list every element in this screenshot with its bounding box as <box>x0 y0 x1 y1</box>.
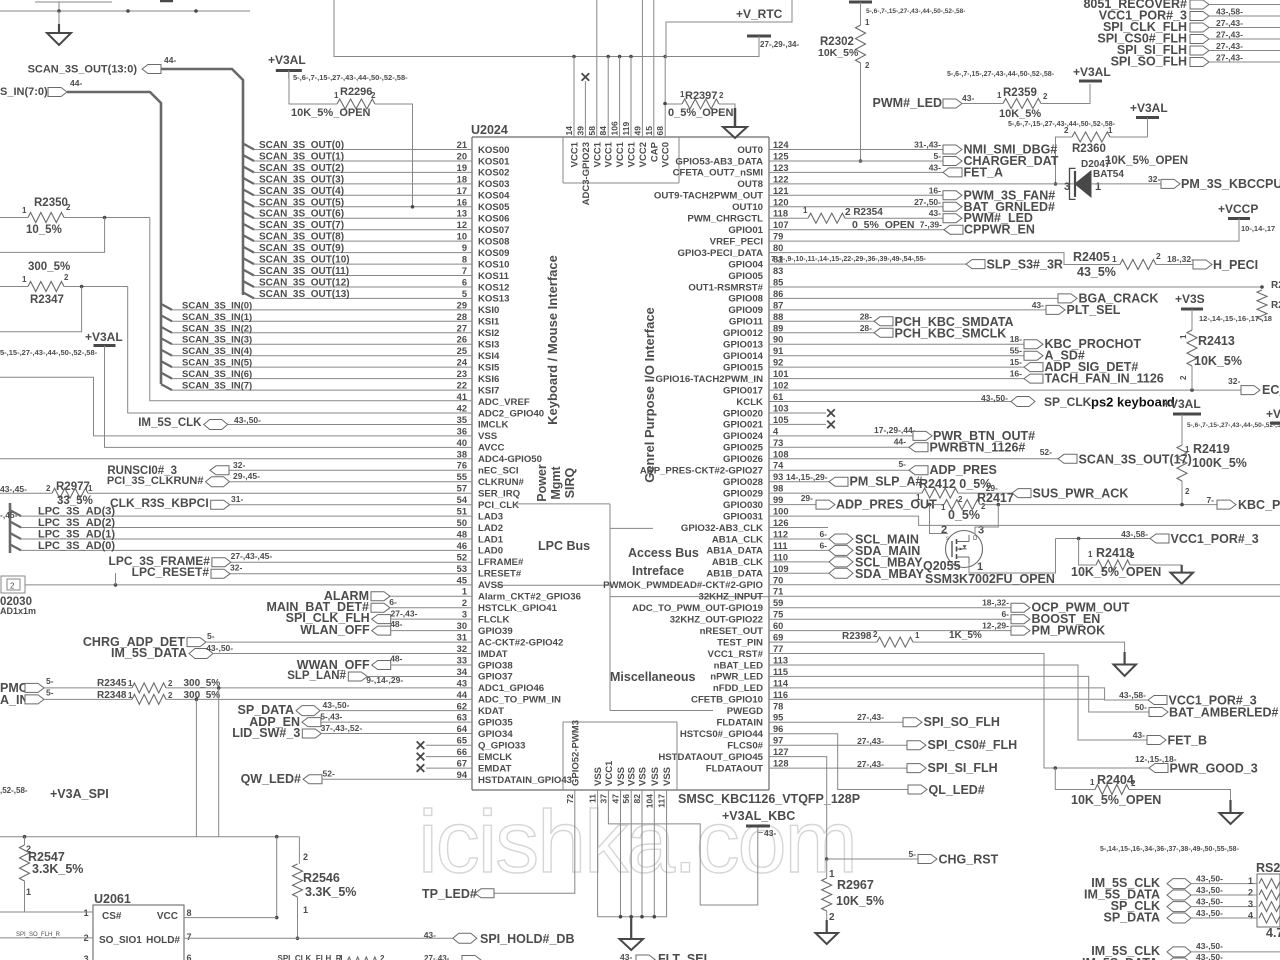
U2024 top pin 84 VCC1 <box>598 126 615 168</box>
svg-text:2: 2 <box>66 203 71 212</box>
wire Q2055 source <box>969 539 1056 574</box>
svg-text:SCAN_3S_OUT(6): SCAN_3S_OUT(6) <box>259 209 344 220</box>
svg-text:10K_5%: 10K_5% <box>818 47 859 59</box>
svg-text:29: 29 <box>457 300 467 310</box>
wire SCAN_3S_OUT(10) <box>243 255 472 266</box>
svg-text:KDAT: KDAT <box>478 706 504 717</box>
svg-text:4.7: 4.7 <box>1266 926 1280 940</box>
wire SCAN_3S_IN(5) <box>161 358 472 369</box>
U2024 left pin 31 AC-CKT#2-GPIO42 <box>457 633 564 649</box>
svg-text:VCC1: VCC1 <box>604 760 615 786</box>
power symbol +V3AL (R2296) <box>268 53 306 79</box>
U2024 section divider (PWEGD) <box>610 710 713 712</box>
net CHG_RST connector <box>827 849 999 867</box>
wire R2398 to ground <box>913 642 1125 655</box>
svg-text:15: 15 <box>644 126 654 136</box>
net SP_CLK to RS2 <box>1111 897 1280 914</box>
svg-text:LAD0: LAD0 <box>478 546 503 557</box>
wire R2350 branch <box>0 218 105 253</box>
svg-text:GPIO013: GPIO013 <box>723 340 763 351</box>
svg-text:SCAN_3S_OUT(13:0): SCAN_3S_OUT(13:0) <box>28 64 138 76</box>
svg-text:122: 122 <box>773 174 789 184</box>
net SDA_MBAY connector <box>769 567 925 581</box>
net CLK_R3S_KBPCI connector <box>110 494 472 510</box>
U2024 right pin 74 ADP_PRES-CKT#2-GPIO27 <box>640 461 784 477</box>
junction dots VCC rail <box>572 55 667 59</box>
wire R2296 left <box>289 79 337 105</box>
svg-text:AD1x1m: AD1x1m <box>0 606 36 616</box>
page refs +V3AL R2302 <box>866 8 965 15</box>
svg-text:KOS02: KOS02 <box>478 168 509 179</box>
net PM_SLP_A# connector <box>769 472 922 489</box>
svg-text:SCAN_3S_IN(2): SCAN_3S_IN(2) <box>182 323 252 334</box>
svg-text:Miscellaneous: Miscellaneous <box>610 670 695 684</box>
svg-text:114: 114 <box>773 678 789 688</box>
svg-text:5-,15-,27-,43-,44-,50-,52-,58-: 5-,15-,27-,43-,44-,50-,52-,58- <box>0 348 98 357</box>
U2024 left pin 64 GPIO34 <box>457 724 514 740</box>
svg-text:FET_B: FET_B <box>1168 734 1208 748</box>
svg-text:3: 3 <box>1248 899 1253 909</box>
U2024 right pin 71 32KHZ_INPUT <box>698 587 783 603</box>
svg-text:33: 33 <box>457 656 467 666</box>
svg-text:11: 11 <box>588 794 598 803</box>
svg-text:3: 3 <box>978 525 984 537</box>
svg-text:GPIO37: GPIO37 <box>478 672 513 683</box>
svg-text:43-: 43- <box>620 952 632 960</box>
wire HSTCS0 to QL_LED# <box>769 734 908 790</box>
ground symbol R2967 <box>816 920 839 944</box>
resistor R2350 <box>0 197 71 236</box>
svg-text:5-,6-,7-,15-,27-,43-,44-,50-,5: 5-,6-,7-,15-,27-,43-,44-,50-,52-,58- <box>1008 121 1116 128</box>
svg-text:KOS04: KOS04 <box>478 191 510 202</box>
svg-text:27-,43-: 27-,43- <box>1216 18 1243 28</box>
svg-text:SDA_MBAY: SDA_MBAY <box>855 567 925 581</box>
diode D2047 BAT54 <box>1064 159 1124 199</box>
svg-text:106: 106 <box>610 121 620 135</box>
resistor R2547 <box>20 837 84 912</box>
U2024 top pin 119 VCC1 <box>621 122 638 168</box>
svg-text:BAT_AMBERLED#: BAT_AMBERLED# <box>1169 706 1279 720</box>
svg-text:IM_5S_CLK: IM_5S_CLK <box>138 417 202 429</box>
svg-text:0_5%_OPEN: 0_5%_OPEN <box>668 107 733 119</box>
svg-text:27-,43-: 27-,43- <box>857 712 884 722</box>
wire GPIO52-PWM3 to TP_LED# <box>494 790 575 893</box>
svg-text:12-,14-,15-,16-,17-,18: 12-,14-,15-,16-,17-,18 <box>1199 314 1272 323</box>
U2024 left pin 41 ADC_VREF <box>457 392 530 408</box>
U2024 right pin 122 OUT8 <box>737 174 788 190</box>
svg-text:SCAN_3S_OUT(8): SCAN_3S_OUT(8) <box>259 232 344 243</box>
U2024 left pin 13 KOS06 <box>457 209 510 225</box>
wire SCAN_3S_OUT(0) <box>243 140 472 151</box>
U2024 right pin 73 GPIO025 <box>723 438 783 454</box>
bus SCAN_3S_IN vertical <box>67 92 161 384</box>
svg-text:7-,8-,9-,10-,11-,14-,15-,22-,2: 7-,8-,9-,10-,11-,14-,15-,22-,29-,36-,39-… <box>771 256 927 263</box>
svg-text:AB1B_DATA: AB1B_DATA <box>706 569 763 580</box>
svg-text:+V: +V <box>1266 407 1280 421</box>
power symbol +V3AL (R2360) <box>1130 101 1168 137</box>
svg-text:TACH_FAN_IN_1126: TACH_FAN_IN_1126 <box>1045 372 1164 386</box>
svg-text:8: 8 <box>462 255 467 265</box>
svg-text:GPIO38: GPIO38 <box>478 660 513 671</box>
U2024 left pin 22 KSI7 <box>457 381 500 397</box>
svg-text:38: 38 <box>457 449 467 459</box>
U2024 right pin 88 GPIO11 <box>729 312 783 328</box>
U2024 left pin 50 LAD2 <box>457 518 503 534</box>
wire SCAN_3S_IN(3) <box>161 335 472 346</box>
svg-text:LFRAME#: LFRAME# <box>478 557 524 568</box>
svg-text:1: 1 <box>22 206 27 215</box>
svg-text:SCAN_3S_IN(4): SCAN_3S_IN(4) <box>182 346 252 357</box>
svg-text:43-,50-: 43-,50- <box>981 393 1008 403</box>
svg-text:1: 1 <box>1088 550 1093 559</box>
wire PWM_CHRGCTL row <box>769 217 943 219</box>
svg-text:1: 1 <box>915 631 920 640</box>
svg-text:GPIO16-TACH2PWM_IN: GPIO16-TACH2PWM_IN <box>656 374 764 385</box>
resistor R2347 <box>0 261 70 306</box>
watermark icishka.com <box>418 792 856 891</box>
resistor R2397 <box>668 90 733 119</box>
net LID_SW#_3 connector <box>232 723 472 740</box>
svg-text:2: 2 <box>64 273 69 282</box>
U2024 right pin 103 GPIO020 <box>723 404 789 420</box>
svg-text:3: 3 <box>462 610 467 620</box>
svg-text:5-,6-,7-,15-,27-,43-,44-,50-,5: 5-,6-,7-,15-,27-,43-,44-,50-,52-,58- <box>293 73 408 82</box>
net VCC1_POR#_3 connector (mid) <box>1056 529 1259 546</box>
U2024 right pin 97 FLCS0# <box>727 736 783 752</box>
wire R2360 right <box>1110 136 1148 138</box>
section label LPC Bus <box>538 539 590 553</box>
U2024 right pin 124 OUT0 <box>737 140 789 156</box>
U2024 left pin 46 LAD0 <box>457 541 503 557</box>
svg-text:U2024: U2024 <box>471 123 508 137</box>
U2024 right pin 4 GPIO024 <box>723 426 779 442</box>
U2024 bottom pin 56 VSS <box>621 767 638 803</box>
svg-text:50-: 50- <box>1135 702 1147 712</box>
resistor R2302 <box>818 18 870 70</box>
U2024 left pin 67 EMDAT <box>457 759 512 775</box>
svg-text:118: 118 <box>773 209 788 219</box>
svg-text:10_5%: 10_5% <box>26 224 62 236</box>
svg-text:1: 1 <box>339 954 344 960</box>
net ADP_PRES_OUT connector <box>801 493 937 512</box>
net SPI_SI_FLH connector <box>769 759 998 775</box>
svg-text:Intreface: Intreface <box>632 564 684 578</box>
svg-text:300_5%: 300_5% <box>184 678 221 689</box>
power symbol +V3AL right edge (cut) <box>1266 407 1280 423</box>
no-connect left <box>417 753 472 761</box>
svg-text:ADC_TO_PWM_OUT-GPIO19: ADC_TO_PWM_OUT-GPIO19 <box>632 603 763 614</box>
svg-text:47: 47 <box>611 794 621 804</box>
svg-text:+V3AL: +V3AL <box>1163 397 1201 411</box>
resistor pack RS2 (cut) <box>1256 861 1280 940</box>
U2024 right pin 93 GPIO028 <box>723 472 783 488</box>
section label Power Mgmt SIRQ <box>535 464 577 502</box>
svg-text:4: 4 <box>1248 911 1253 921</box>
svg-text:R2404: R2404 <box>1097 773 1134 787</box>
svg-text:5-: 5- <box>46 676 54 686</box>
net MAIN_BAT_DET# connector <box>266 597 472 614</box>
svg-text:+V3AL_KBC: +V3AL_KBC <box>722 809 795 823</box>
net SLP_S3#_3R connector <box>966 258 1063 272</box>
svg-text:93: 93 <box>773 472 783 482</box>
svg-text:OUT1-RSMRST#: OUT1-RSMRST# <box>688 282 763 293</box>
svg-text:AVSS: AVSS <box>478 580 504 591</box>
svg-text:27-,29-,34-: 27-,29-,34- <box>760 40 799 49</box>
svg-text:OUT8: OUT8 <box>737 179 763 190</box>
wire GPIO029 row <box>769 492 922 494</box>
svg-text:SPI_SO_FLH_R: SPI_SO_FLH_R <box>16 932 61 938</box>
component D2030 pad <box>0 576 36 616</box>
net KBC_PROCHOT connector <box>769 334 1141 351</box>
svg-text:1: 1 <box>84 908 89 918</box>
net SDA_MAIN connector <box>769 540 920 558</box>
svg-text:CFETA_OUT7_nSMI: CFETA_OUT7_nSMI <box>673 168 764 179</box>
svg-text:IM_5S_DATA: IM_5S_DATA <box>1082 956 1158 960</box>
svg-text:KOS13: KOS13 <box>478 294 509 305</box>
page refs +V3AL R2359 <box>947 71 1055 78</box>
svg-text:44: 44 <box>457 690 468 700</box>
net BAT_GRNLED# connector <box>769 197 1055 214</box>
svg-text:2: 2 <box>1130 551 1135 560</box>
U2024 right pin 126 GPIO32-AB3_CLK <box>681 518 789 534</box>
power symbol +V3A_SPI <box>0 786 109 801</box>
svg-text:IMDAT: IMDAT <box>478 649 508 660</box>
svg-text:3: 3 <box>84 954 89 960</box>
svg-text:ADP_PRES-CKT#2-GPIO27: ADP_PRES-CKT#2-GPIO27 <box>640 466 763 477</box>
svg-text:51: 51 <box>457 507 467 517</box>
svg-text:15-: 15- <box>1010 357 1022 367</box>
net EC_PECI connector (cut) <box>1228 376 1280 397</box>
page refs +V3AL R2360 <box>1008 121 1116 128</box>
svg-text:14-,15-,29-: 14-,15-,29- <box>786 472 828 482</box>
svg-text:2: 2 <box>371 91 376 100</box>
svg-text:18-,32-: 18-,32- <box>1167 254 1194 264</box>
svg-text:64: 64 <box>457 724 468 734</box>
net IM_5S_CLK connector (bottom) <box>1091 941 1280 958</box>
svg-text:31-: 31- <box>231 494 243 504</box>
svg-text:28-: 28- <box>860 311 872 321</box>
svg-text:GPIO028: GPIO028 <box>723 477 764 488</box>
svg-text:23: 23 <box>457 369 467 379</box>
svg-text:1: 1 <box>1108 126 1113 135</box>
power symbol +V_RTC <box>736 7 783 48</box>
svg-text:KOS05: KOS05 <box>478 202 510 213</box>
svg-text:KSI6: KSI6 <box>478 374 499 385</box>
wire VCC pin8 rail <box>275 837 279 920</box>
net SPI_HOLD#_DB connector <box>424 930 575 946</box>
svg-text:FET_A: FET_A <box>964 165 1004 179</box>
U2024 left pin 32 IMDAT <box>457 644 508 660</box>
top-left partial box <box>35 1 173 11</box>
U2024 right pin 59 ADC_TO_PWM_OUT-GPIO19 <box>632 598 783 614</box>
net SP_CLK connector <box>981 393 1092 409</box>
wire GPIO32-AB3_CLK stub <box>769 527 828 529</box>
svg-text:43_5%: 43_5% <box>1077 265 1116 279</box>
net PM_PWROK connector <box>769 621 1105 638</box>
wire VREF_PECI to +VCCP <box>769 219 1239 242</box>
svg-text:VSS: VSS <box>650 767 661 786</box>
wire PWM#_LED to R2359 <box>962 103 1003 105</box>
wire PECI_DATA row <box>769 253 1120 265</box>
svg-text:KOS11: KOS11 <box>478 271 510 282</box>
svg-text:87: 87 <box>773 300 783 310</box>
svg-text:SCAN_3S_OUT(9): SCAN_3S_OUT(9) <box>259 243 344 254</box>
wire VSS pins to ground rail <box>598 790 667 919</box>
net FET_A connector <box>769 162 1003 179</box>
U2024 right pin 121 OUT9-TACH2PWM_OUT <box>654 186 789 202</box>
wire R2417 to KBC_PWRBTN <box>980 503 1217 507</box>
U2024 left pin 18 KOS03 <box>457 174 510 190</box>
svg-text:SUS_PWR_ACK: SUS_PWR_ACK <box>1033 487 1129 501</box>
resistor R2419 <box>1177 425 1247 505</box>
svg-text:40: 40 <box>457 438 467 448</box>
net KBC_PWRBTN connector (cut) <box>1206 495 1280 512</box>
svg-text:43-: 43- <box>424 930 436 940</box>
U2024 top pin 106 VCC1 <box>610 121 627 167</box>
U2024 right pin 114 nFDD_LED <box>713 678 789 694</box>
svg-text:35: 35 <box>457 415 467 425</box>
svg-text:R2347: R2347 <box>30 294 64 306</box>
svg-text:39: 39 <box>575 126 585 136</box>
svg-text:VSS: VSS <box>638 767 649 786</box>
wire LPC_3S_AD(2) <box>10 517 472 529</box>
svg-text:43-: 43- <box>1133 730 1145 740</box>
svg-text:PM_3S_KBCCPURST: PM_3S_KBCCPURST <box>1181 177 1280 191</box>
wire KCLK row <box>769 401 1011 403</box>
svg-text:A_IN: A_IN <box>0 693 28 707</box>
wire VCC1 pin119 stub <box>630 57 632 138</box>
svg-text:57: 57 <box>457 484 467 494</box>
svg-text:EC_: EC_ <box>1262 383 1280 397</box>
svg-text:LID_SW#_3: LID_SW#_3 <box>232 726 300 740</box>
svg-text:H_PECI: H_PECI <box>1213 258 1258 272</box>
wire +V_RTC to rail <box>665 48 759 57</box>
svg-text:77: 77 <box>773 644 783 654</box>
U2024 left pin 2 HSTCLK_GPIO41 <box>462 598 558 614</box>
svg-text:KOS06: KOS06 <box>478 214 509 225</box>
net 8051_RECOVER# connector <box>1083 0 1280 17</box>
svg-text:13: 13 <box>457 209 467 219</box>
wire R2302 to GPIO53 row <box>859 63 863 163</box>
svg-text:24: 24 <box>457 358 468 368</box>
wire diode to PM_3S_KBCCPURST <box>1091 183 1161 185</box>
svg-text:ADC2_GPIO40: ADC2_GPIO40 <box>478 408 544 419</box>
svg-text:32KHZ_INPUT: 32KHZ_INPUT <box>698 592 763 603</box>
svg-text:17-,29-,44-: 17-,29-,44- <box>874 425 916 435</box>
wire SCAN_3S_OUT(4) <box>243 186 472 197</box>
svg-text:65: 65 <box>457 736 467 746</box>
svg-text:103: 103 <box>773 404 789 414</box>
svg-text:+V3A_SPI: +V3A_SPI <box>50 787 109 801</box>
svg-text:1: 1 <box>26 887 31 897</box>
svg-text:ADC_TO_PWM_IN: ADC_TO_PWM_IN <box>478 695 561 706</box>
U2024 bottom pin 104 VSS <box>644 767 661 808</box>
svg-text:VCC1_POR#_3: VCC1_POR#_3 <box>1169 694 1257 708</box>
svg-text:R2: R2 <box>1271 300 1280 311</box>
net IM_5S_DATA connector (left) <box>111 643 472 660</box>
svg-text:SP_DATA: SP_DATA <box>1104 911 1161 925</box>
svg-text:R2360: R2360 <box>1072 143 1106 155</box>
svg-text:79: 79 <box>773 232 783 242</box>
ground symbol R2418 <box>1171 565 1194 584</box>
svg-text:GPIO017: GPIO017 <box>723 385 763 396</box>
svg-text:123: 123 <box>773 163 789 173</box>
svg-text:108: 108 <box>773 449 789 459</box>
wire U2061 SO_SIO1 <box>0 932 93 938</box>
svg-text:100: 100 <box>773 507 789 517</box>
svg-text:126: 126 <box>773 518 789 528</box>
wire VCC1_RST# to PWR_GOOD_3 <box>769 654 1149 770</box>
net SPI_CS0#_FLH connector <box>769 736 1017 752</box>
svg-text:70: 70 <box>773 575 783 585</box>
svg-text:102: 102 <box>773 381 789 391</box>
svg-text:96: 96 <box>773 724 783 734</box>
wire +V_RTC feed from top <box>666 0 792 57</box>
svg-text:28-: 28- <box>860 323 872 333</box>
svg-text:48-: 48- <box>390 619 402 629</box>
svg-text:nEC_SCI: nEC_SCI <box>478 466 519 477</box>
resistor R2546 <box>293 837 357 940</box>
svg-text:27-,43-: 27-,43- <box>1216 30 1243 40</box>
svg-text:SCAN_3S_IN(3): SCAN_3S_IN(3) <box>182 335 252 346</box>
wire pin58 to top <box>596 0 598 137</box>
svg-text:32-: 32- <box>230 563 242 573</box>
net IM_5S_CLK to RS2 <box>1091 874 1280 891</box>
net VCC1_POR#_3 connector <box>1099 9 1280 29</box>
U2024 left pin 12 KOS07 <box>457 220 510 236</box>
net BAT_AMBERLED# connector <box>1135 702 1279 720</box>
wire GPIO04 row refs <box>769 256 966 264</box>
svg-text:GPIO3-PECI_DATA: GPIO3-PECI_DATA <box>678 248 764 259</box>
U2024 right pin 91 GPIO014 <box>723 346 783 362</box>
svg-text:+V3AL: +V3AL <box>85 330 123 344</box>
svg-text:55-: 55- <box>1010 346 1022 356</box>
U2024 section divider (GPIO32) <box>610 527 653 529</box>
svg-text:53: 53 <box>457 564 467 574</box>
svg-text:42: 42 <box>457 404 467 414</box>
U2024 top pin 68 VCC0 <box>655 126 672 168</box>
svg-text:119: 119 <box>621 122 631 136</box>
wire 32KHZ_INPUT row <box>769 595 1280 597</box>
svg-text:CS#: CS# <box>102 911 122 922</box>
svg-text:7: 7 <box>187 932 192 942</box>
U2024 left pin 65 Q_GPIO33 <box>457 736 526 752</box>
U2024 left pin 57 SER_IRQ <box>457 484 521 500</box>
wire TEST_PIN row <box>769 641 877 643</box>
svg-text:GPIO031: GPIO031 <box>723 511 764 522</box>
U2024 top pin 15 CAP <box>644 126 661 162</box>
svg-text:27-,43-: 27-,43- <box>424 954 450 960</box>
net BOOST_EN connector <box>769 609 1100 626</box>
wire pin49 to top <box>641 0 643 137</box>
U2024 left pin 24 KSI5 <box>457 358 500 374</box>
wire nPWR_LED to BAT_AMBERLED# <box>769 676 1149 712</box>
wire Q2055 drain <box>975 505 998 534</box>
svg-text:104: 104 <box>644 794 654 808</box>
net SPI_SO_FLH connector <box>1111 55 1280 69</box>
U2024 left pin 45 AVSS <box>457 575 504 591</box>
U2024 left pin 54 PCI_CLK <box>457 495 519 511</box>
svg-text:PWR_GOOD_3: PWR_GOOD_3 <box>1170 762 1258 776</box>
svg-text:18: 18 <box>457 174 467 184</box>
svg-text:109: 109 <box>773 564 789 574</box>
svg-text:SCAN_3S_IN(7): SCAN_3S_IN(7) <box>182 381 252 392</box>
svg-text:FLT_SEL: FLT_SEL <box>658 952 712 960</box>
net SPI_SI_FLH connector <box>1117 43 1280 63</box>
wire OUT8 row to diode <box>769 183 1074 185</box>
resistor R2977 <box>0 481 93 507</box>
svg-text:SCAN_3S_OUT(2): SCAN_3S_OUT(2) <box>259 163 344 174</box>
